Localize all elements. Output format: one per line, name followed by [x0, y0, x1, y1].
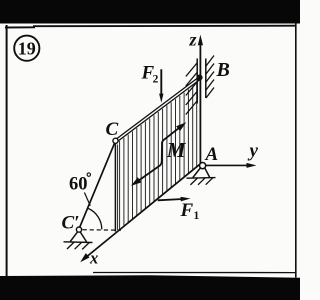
svg-text:1: 1 [194, 210, 200, 222]
60 degree leader line [84, 193, 90, 206]
z axis arrowhead [198, 35, 203, 46]
frame right border [295, 23, 297, 278]
svg-text:z: z [189, 29, 197, 49]
bottom scan black band [0, 275, 300, 300]
svg-text:F: F [180, 200, 194, 221]
svg-text:x: x [89, 249, 98, 268]
svg-text:C′: C′ [62, 213, 80, 234]
support at C' [64, 232, 93, 250]
force F2 arrow [160, 69, 162, 95]
z axis [199, 43, 201, 164]
rod C to C' [80, 143, 115, 227]
wall hatching right of B [206, 56, 214, 99]
dashed construction line from C' [83, 229, 122, 232]
rod CB top edge double line [116, 77, 200, 143]
plate left edge double line [115, 143, 117, 232]
support at A [187, 168, 216, 185]
moment M bottom arrowhead [131, 177, 141, 186]
node C' circle [76, 227, 81, 232]
y axis arrowhead [247, 163, 257, 168]
svg-text:B: B [216, 59, 230, 81]
x axis arrowhead [80, 253, 89, 262]
frame left border [6, 25, 8, 277]
moment M zigzag arrow [135, 126, 182, 184]
node A circle [200, 163, 206, 169]
wall hatching left of B [186, 63, 197, 115]
svg-text:C: C [106, 119, 119, 140]
svg-text:y: y [248, 141, 259, 162]
y axis [206, 164, 250, 166]
plate bottom edge and x axis line [84, 164, 200, 259]
wall line left at B [196, 59, 198, 104]
svg-text:A: A [205, 144, 219, 165]
moment M top arrowhead [176, 122, 186, 131]
frame top border [5, 26, 35, 28]
node C circle [113, 138, 118, 143]
pin blob at B [197, 75, 203, 81]
60 degree angle arc [88, 208, 102, 229]
svg-text:60: 60 [69, 175, 88, 195]
wall line right at B [205, 59, 207, 99]
plate hatching [120, 83, 197, 229]
svg-text:2: 2 [153, 74, 159, 86]
problem number badge circle [14, 36, 39, 61]
svg-text:M: M [166, 138, 187, 162]
top scan black band [0, 0, 300, 24]
force F1 arrow [158, 199, 183, 200]
svg-text:19: 19 [18, 39, 36, 59]
frame bottom border [93, 272, 296, 274]
